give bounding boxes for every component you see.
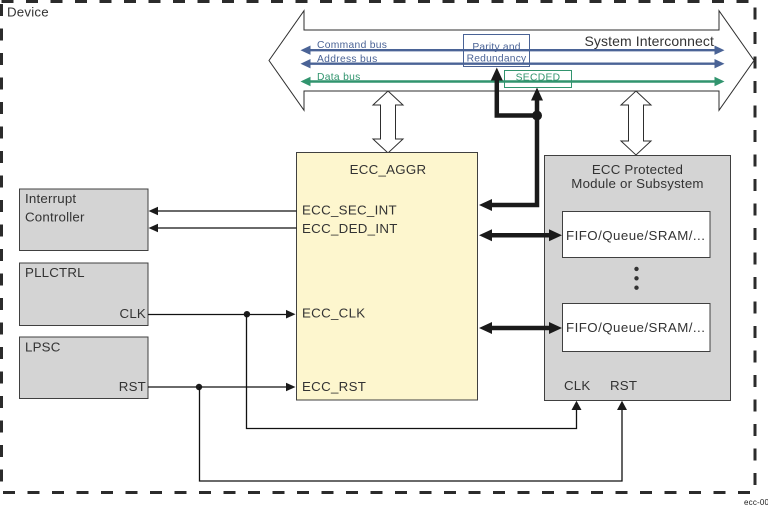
svg-text:ECC_CLK: ECC_CLK — [302, 306, 365, 321]
label System Interconnect — [584, 33, 714, 49]
svg-text:FIFO/Queue/SRAM/...: FIFO/Queue/SRAM/... — [566, 320, 705, 335]
svg-text:SECDED: SECDED — [516, 72, 561, 83]
parity and redundancy box — [464, 35, 530, 67]
pin label CLK (PLLCTRL) — [120, 306, 146, 321]
PLLCTRL block — [20, 263, 149, 326]
data bus wire — [301, 77, 725, 86]
svg-text:ECC_SEC_INT: ECC_SEC_INT — [302, 203, 397, 218]
pin label ECC_CLK — [302, 306, 365, 321]
svg-text:PLLCTRL: PLLCTRL — [25, 265, 85, 280]
thick wire ECC_AGGR to FIFO2 — [479, 322, 562, 334]
svg-text:FIFO/Queue/SRAM/...: FIFO/Queue/SRAM/... — [566, 228, 705, 243]
thick wire ECC_AGGR to interconnect parity/secded — [479, 68, 543, 212]
command bus wire — [301, 46, 725, 55]
pin label RST (module) — [610, 378, 637, 393]
wire CLK net — [148, 310, 582, 429]
wire ECC_DED_INT to interrupt controller — [149, 224, 297, 233]
label Command bus — [317, 40, 387, 51]
vertical bus arrow to ECC_AGGR — [373, 91, 403, 153]
pin label RST (LPSC) — [119, 379, 146, 394]
vertical bus arrow to ECC protected module — [621, 91, 651, 155]
pin label ECC_DED_INT — [302, 221, 398, 236]
svg-text:System Interconnect: System Interconnect — [584, 33, 714, 49]
svg-text:Address bus: Address bus — [317, 54, 378, 65]
thick wire ECC_AGGR to FIFO1 — [479, 229, 562, 241]
system interconnect double arrow — [269, 11, 754, 111]
svg-text:Command bus: Command bus — [317, 40, 387, 51]
svg-text:ECC Protected: ECC Protected — [592, 162, 683, 177]
pin label CLK (module) — [564, 378, 590, 393]
svg-text:Interrupt: Interrupt — [25, 191, 76, 206]
svg-text:Module or Subsystem: Module or Subsystem — [571, 176, 703, 191]
label Address bus — [317, 54, 378, 65]
SECDED box — [505, 71, 572, 88]
wire RST net — [148, 383, 627, 481]
interrupt controller block — [20, 189, 149, 251]
svg-text:Redundancy: Redundancy — [467, 54, 527, 65]
figure tag ecc-001 — [744, 498, 768, 506]
wire ECC_SEC_INT to interrupt controller — [149, 207, 297, 216]
ECC_AGGR block — [297, 153, 478, 401]
svg-text:RST: RST — [119, 379, 146, 394]
svg-text:Controller: Controller — [25, 209, 85, 224]
FIFO block 2 — [563, 304, 711, 352]
ellipsis — [634, 267, 638, 290]
svg-text:Device: Device — [7, 5, 49, 20]
svg-text:LPSC: LPSC — [25, 339, 61, 354]
svg-text:ECC_RST: ECC_RST — [302, 379, 366, 394]
svg-text:ECC_DED_INT: ECC_DED_INT — [302, 221, 398, 236]
pin label ECC_RST — [302, 379, 366, 394]
svg-text:CLK: CLK — [564, 378, 590, 393]
label Data bus — [317, 72, 361, 83]
ECC protected module block — [545, 156, 731, 401]
svg-text:ECC_AGGR: ECC_AGGR — [350, 162, 427, 177]
label Device — [7, 5, 49, 20]
svg-text:Parity and: Parity and — [472, 42, 520, 53]
address bus wire — [301, 59, 725, 68]
svg-text:CLK: CLK — [120, 306, 146, 321]
svg-text:RST: RST — [610, 378, 637, 393]
LPSC block — [20, 337, 149, 399]
svg-text:Data bus: Data bus — [317, 72, 361, 83]
svg-text:ecc-001: ecc-001 — [744, 498, 768, 506]
pin label ECC_SEC_INT — [302, 203, 397, 218]
FIFO block 1 — [563, 212, 711, 258]
